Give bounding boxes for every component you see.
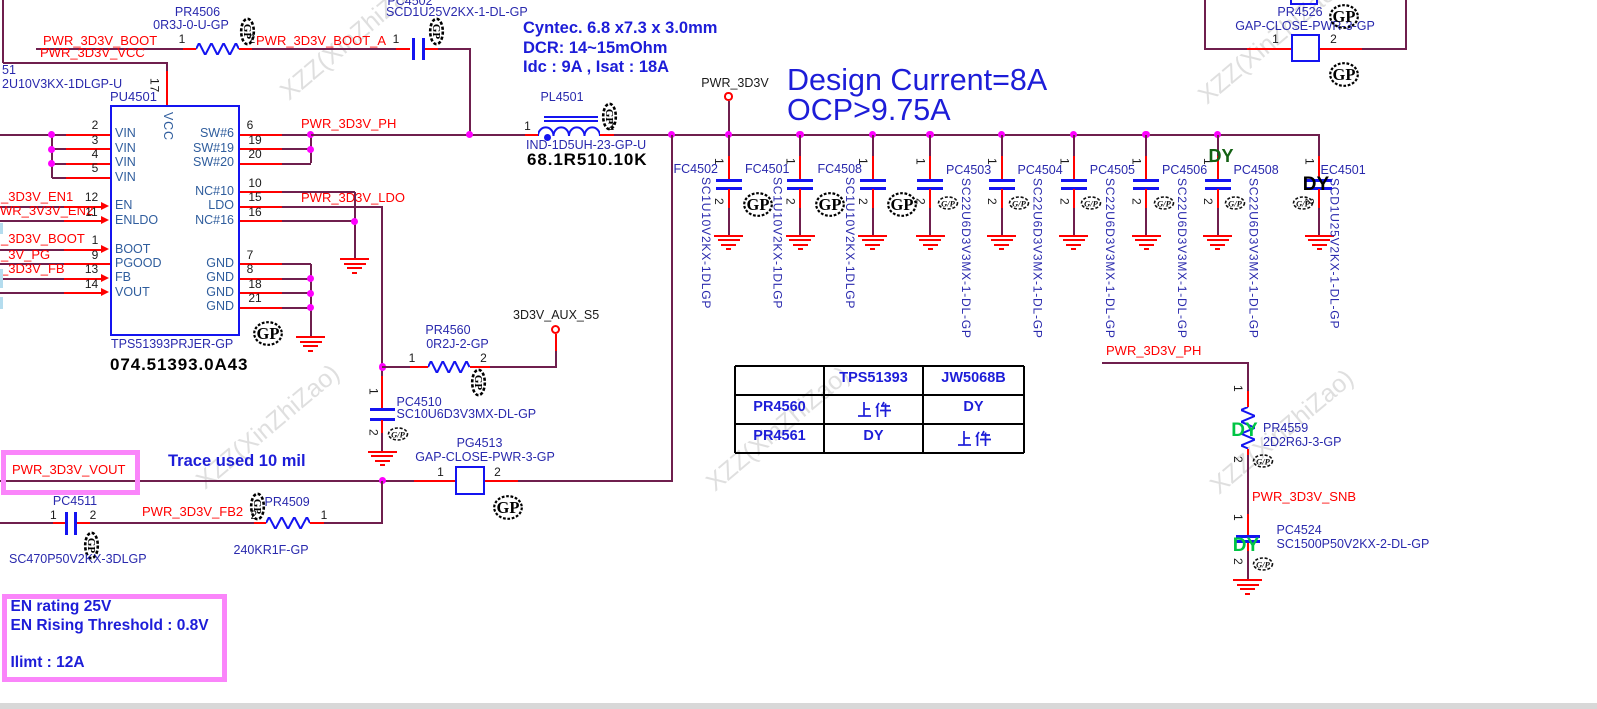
stamp GP PC4504 — [1008, 196, 1030, 210]
pin name GND — [206, 271, 234, 284]
svg-text:GP: GP — [241, 23, 253, 39]
stamp PC4510 — [387, 427, 409, 441]
stamp PR4559 — [1252, 454, 1274, 468]
stamp GP PC4506 — [1153, 196, 1175, 210]
pin 1 PC4503 — [914, 158, 927, 165]
junction dot PR4560 — [379, 363, 386, 370]
wire FB pin 13 — [0, 278, 64, 280]
pin 2 PR4560 — [480, 352, 487, 365]
wire VIN pin 5 — [52, 177, 67, 179]
pin name BOOT — [115, 243, 150, 256]
wire VIN pin 2 — [0, 134, 66, 136]
pin number 18 — [248, 278, 261, 291]
wire NC vertical — [354, 192, 356, 258]
pin 2 PL4501 — [608, 120, 615, 133]
resistor PR4509 — [254, 522, 267, 524]
wire trace PG4513 riser — [671, 135, 673, 482]
capacitor EC4501 — [1318, 156, 1320, 180]
pin 2 PC4506 — [1130, 198, 1143, 205]
capacitor PC4524 — [1247, 514, 1249, 536]
resistor PR4559 — [1241, 407, 1255, 449]
pin number 8 — [247, 263, 254, 276]
pin number 12 — [85, 191, 98, 204]
pin 1 PC4504 — [986, 158, 999, 165]
wire PWR_3D3V_SNB — [1247, 449, 1249, 456]
junction dot PC4502 branch — [466, 131, 473, 138]
ground NC — [340, 258, 369, 260]
pin number 15 — [248, 191, 261, 204]
svg-text:GP: GP — [251, 498, 263, 514]
pin 2 PC4510 — [367, 429, 380, 436]
svg-text:G/P: G/P — [1157, 199, 1172, 209]
pin name PGOOD — [115, 257, 162, 270]
pin name SW#20 — [193, 156, 234, 169]
pin name EN — [115, 199, 132, 212]
pin 2 FC4502 — [713, 198, 726, 205]
svg-text:GP: GP — [891, 195, 914, 214]
net label PWR_3D3V_FB2 — [142, 505, 243, 519]
svg-text:GP: GP — [747, 195, 770, 214]
wire NC#16 — [240, 220, 282, 222]
pin 2 PG4513 — [494, 466, 501, 479]
pin 1 PC4506 — [1130, 158, 1143, 165]
wire GND pin — [240, 278, 282, 280]
stamp PC4511 — [83, 531, 100, 560]
pin name VOUT — [115, 286, 150, 299]
pin 1 PR4526 — [1272, 33, 1279, 46]
ground IC — [296, 336, 325, 338]
table cell shang jian 2 — [957, 430, 991, 447]
svg-text:GP: GP — [257, 324, 280, 343]
wire PR4526 loop — [1204, 0, 1206, 50]
wire PWR_3D3V_BOOT — [36, 48, 183, 50]
pin number 7 — [247, 249, 254, 262]
pin 1 PC4508 — [1202, 158, 1215, 165]
annotation Cyntec — [523, 20, 717, 37]
pin 1 PC4524 — [1232, 514, 1245, 521]
stamp GP FC4501 — [814, 191, 846, 218]
net label PWR_3D3V_PH right — [1105, 343, 1107, 345]
svg-text:G/P: G/P — [1228, 199, 1243, 209]
DY mark EC4501 — [1303, 175, 1329, 195]
wire main bus — [311, 134, 471, 136]
pin number 19 — [248, 134, 261, 147]
pin 1 PR4559 — [1232, 385, 1245, 392]
svg-text:GP: GP — [818, 195, 841, 214]
pin number 3 — [92, 134, 99, 147]
stamp GP IC — [252, 320, 284, 347]
wire SW#6 — [240, 134, 282, 136]
wire trace horizontal — [0, 480, 414, 482]
pin 1 PR4506 — [179, 33, 186, 46]
svg-text:GP: GP — [430, 23, 442, 39]
resistor PR4560 — [382, 366, 410, 368]
pin 1 PL4501 — [524, 120, 531, 133]
pin number 4 — [92, 148, 99, 161]
svg-text:GP: GP — [1332, 7, 1355, 26]
pin 1 PG4513 — [437, 466, 444, 479]
stamp PR4506 — [239, 17, 256, 46]
wire EN pin 12 — [0, 206, 64, 208]
wire SW#19 — [240, 148, 282, 150]
wire PC4510 pin2 — [381, 420, 383, 434]
pin number 17 — [148, 78, 161, 93]
terminal 3D3V_AUX_S5 — [551, 325, 560, 334]
svg-text:G/P: G/P — [391, 429, 406, 439]
pin 2 EC4501 — [1303, 198, 1316, 205]
pin number 16 — [248, 206, 261, 219]
pin 2 PC4508 — [1202, 198, 1215, 205]
net label PWR_3D3V_PH — [301, 117, 396, 131]
net label PWR_3D3V_VCC — [40, 46, 145, 60]
wire VOUT pin 14 — [0, 292, 64, 294]
junction dot trace — [379, 477, 386, 484]
stamp GP PC4505 — [1080, 196, 1102, 210]
pin 1 PR4509 — [321, 509, 328, 522]
pin 2 PC4524 — [1232, 558, 1245, 565]
pin name NC#16 — [195, 214, 234, 227]
pin name VIN — [115, 127, 136, 140]
pin 1 EC4501 — [1303, 158, 1316, 165]
table cell shang jian 1 — [857, 401, 891, 418]
stamp PC4524 — [1252, 557, 1274, 571]
wire VIN pin 3 — [52, 148, 67, 150]
pin 2 PR4509 — [250, 509, 257, 522]
svg-text:G/P: G/P — [1256, 457, 1271, 467]
wire to 3D3V_AUX_S5 — [555, 351, 557, 367]
pin name VIN — [115, 156, 136, 169]
capacitor PC4502 — [396, 48, 410, 50]
gap partial top — [1290, 0, 1319, 5]
pin number 2 — [92, 119, 99, 132]
wire VIN pin 4 — [52, 163, 67, 165]
wire FB2 to trace — [324, 522, 384, 524]
net label PWR_3D3V_VOUT — [12, 463, 125, 477]
pin name SW#6 — [200, 127, 234, 140]
pin 1 FC4508 — [857, 158, 870, 165]
svg-text:G/P: G/P — [1256, 559, 1271, 569]
net label PWR_3D3V_BOOT — [43, 34, 157, 48]
op-amp/regulator U PU4501 TPS51393 — [110, 105, 240, 336]
pin 2 PC4511 — [90, 509, 97, 522]
junction dot PG4513 riser — [668, 131, 675, 138]
DY mark PR4559 — [1231, 421, 1257, 441]
net label 3V_PG — [1, 248, 50, 262]
gap PG4513 — [455, 466, 485, 495]
capacitor FC4501 — [796, 131, 803, 138]
net label PWR_3D3V_SNB — [1252, 490, 1356, 504]
pin name FB — [115, 271, 131, 284]
capacitor PC4505 — [1070, 131, 1077, 138]
wire NC#10 — [240, 191, 282, 193]
svg-text:GP: GP — [1332, 65, 1355, 84]
wire SW vertical — [310, 135, 312, 164]
pin name NC#10 — [195, 185, 234, 198]
svg-text:GP: GP — [85, 537, 97, 553]
wire PC4502 to bus — [438, 48, 471, 50]
stamp PL4501 — [601, 102, 618, 131]
svg-text:GP: GP — [496, 498, 519, 517]
net label 3D3V_EN1 — [1, 190, 73, 204]
box PWR_3D3V_VOUT — [1, 450, 140, 495]
pin 1 PR4560 — [409, 352, 416, 365]
pin name GND — [206, 300, 234, 313]
bus stubs left edge — [0, 223, 3, 234]
resistor PR4506 — [196, 43, 239, 55]
capacitor PC4503 — [926, 131, 933, 138]
pin 2 FC4501 — [784, 198, 797, 205]
inductor PL4501 — [525, 134, 539, 136]
stamp PR4560 — [470, 368, 487, 397]
wire LDO pin 15 — [240, 206, 282, 208]
capacitor PC4508 — [1214, 131, 1221, 138]
pin name VIN — [115, 171, 136, 184]
stamp GP PG4513 — [492, 494, 524, 521]
pin number 1 — [92, 234, 99, 247]
pin name GND — [206, 257, 234, 270]
wire PGOOD pin 9 — [0, 263, 64, 265]
pin 2 PR4526 — [1330, 33, 1337, 46]
box EN rating — [2, 594, 228, 682]
pin number 5 — [92, 162, 99, 175]
capacitor PC4506 — [1142, 131, 1149, 138]
wire bus to EC4501 — [1218, 134, 1321, 136]
pin 2 PC4503 — [914, 198, 927, 205]
stamp PR4509 — [249, 492, 266, 521]
stamp GP PR4526 b — [1328, 61, 1360, 88]
pin number 9 — [92, 249, 99, 262]
ground PC4524 — [1233, 579, 1262, 581]
junction dots SW — [307, 131, 314, 138]
capacitor PC4510 — [370, 408, 395, 411]
pin name SW#19 — [193, 142, 234, 155]
net label 3D3V_AUX_S5 — [513, 309, 599, 322]
pin name VIN — [115, 142, 136, 155]
net label 3D3V_FB — [1, 262, 65, 276]
wire PC4510 pin1 — [381, 376, 383, 410]
stamp GP PR4526 a — [1328, 3, 1360, 30]
annotation Trace used 10 mil — [168, 453, 306, 470]
svg-text:G/P: G/P — [1012, 199, 1027, 209]
pin number 6 — [247, 119, 254, 132]
terminal PWR_3D3V — [728, 101, 730, 135]
pin number 11 — [85, 206, 97, 219]
DY mark PC4508 — [1208, 147, 1233, 166]
wire ENLDO pin 11 — [0, 220, 64, 222]
pin number 10 — [248, 177, 261, 190]
pin 1 PC4505 — [1058, 158, 1071, 165]
net label PWR_3D3V_BOOT_A — [256, 34, 386, 48]
svg-text:G/P: G/P — [1084, 199, 1099, 209]
net label PWR_3V3V_EN2 — [0, 204, 93, 218]
wire GND pin — [240, 307, 282, 309]
capacitor PC4511 — [65, 512, 68, 535]
table DY/stuffing options — [735, 365, 1024, 367]
pin name GND — [206, 286, 234, 299]
pin 1 FC4501 — [784, 158, 797, 165]
wire PWR_3D3V_VCC to pin 17 — [2, 0, 4, 63]
gap PR4526 — [1291, 34, 1320, 63]
pin 1 PC4511 — [50, 509, 57, 522]
part label off-page capacitor — [2, 64, 16, 77]
wire PWR_3D3V_BOOT_A — [239, 48, 253, 50]
wire bus after inductor — [600, 134, 614, 136]
pin number 13 — [85, 263, 98, 276]
pin 1 PC4510 — [367, 388, 380, 395]
wire BOOT pin 1 — [0, 249, 64, 251]
wire SW#20 — [240, 163, 282, 165]
DY mark PC4524 — [1233, 536, 1259, 556]
svg-text:G/P: G/P — [941, 199, 956, 209]
net label PWR_3D3V_PH bottom — [1106, 344, 1201, 358]
svg-text:G/P: G/P — [1296, 198, 1311, 208]
pin 2 PC4504 — [986, 198, 999, 205]
wire FB2 left — [0, 522, 53, 524]
stamp GP PC4508 — [1224, 196, 1246, 210]
junction dots GND — [307, 275, 314, 282]
ground PC4510 — [368, 451, 397, 453]
pin number 21 — [248, 292, 261, 305]
stamp GP FC4502 — [742, 191, 774, 218]
capacitor PC4504 — [998, 131, 1005, 138]
net label 3D3V_BOOT — [1, 232, 85, 246]
pin 2 PR4559 — [1232, 456, 1245, 463]
wire PWR_3D3V_FB2 — [90, 522, 254, 524]
annotation Design Current — [787, 64, 1047, 96]
wire PC4524 to ground — [1247, 543, 1249, 551]
wire GND pin — [240, 292, 282, 294]
pin number 20 — [248, 148, 261, 161]
stamp PC4502 — [428, 17, 445, 46]
junction dots VIN — [48, 131, 55, 138]
pin 1 FC4502 — [713, 158, 726, 165]
pin 2 FC4508 — [857, 198, 870, 205]
pin 2 PR4506 — [249, 33, 256, 46]
pin 2 PC4505 — [1058, 198, 1071, 205]
stamp GP PC4503 — [937, 196, 959, 210]
pin name VCC — [161, 112, 174, 141]
capacitor FC4502 — [725, 131, 732, 138]
net label PWR_3D3V_LDO — [301, 191, 405, 205]
pin name ENLDO — [115, 214, 158, 227]
svg-text:GP: GP — [472, 374, 484, 390]
svg-text:GP: GP — [603, 109, 615, 125]
junction dot NC16 — [351, 218, 358, 225]
stamp EC4501 — [1292, 196, 1314, 210]
pin name LDO — [208, 199, 234, 212]
wire PH to PR4559 — [1102, 362, 1249, 364]
wire GND pin — [240, 263, 282, 265]
wire LDO vertical — [381, 207, 383, 376]
stamp GP FC4508 — [886, 191, 918, 218]
pin number 14 — [85, 278, 98, 291]
wire VIN vertical — [51, 135, 53, 178]
wire GND vertical — [310, 264, 312, 336]
capacitor FC4508 — [869, 131, 876, 138]
